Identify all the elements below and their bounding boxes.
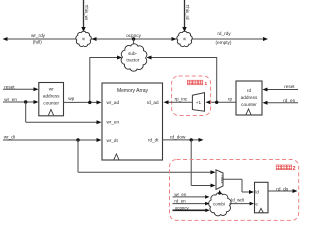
svg-text:counter: counter [43, 101, 59, 106]
svg-text:wr_en: wr_en [174, 192, 187, 197]
wire rp_inc [164, 96, 193, 104]
wire wr_rdy output [3, 37, 78, 41]
wire ld_wdt [230, 198, 255, 206]
wire mux output to register [223, 179, 254, 194]
svg-text:mux: mux [220, 176, 225, 185]
wr address counter U1 [39, 83, 64, 116]
svg-text:reset: reset [284, 84, 295, 89]
svg-text:rd: rd [247, 88, 252, 93]
label wr_rdy (full) [31, 33, 46, 45]
svg-text:(full): (full) [33, 40, 43, 45]
wire ocpncy into combi [173, 205, 210, 212]
svg-text:(empty): (empty) [216, 40, 232, 45]
wire reset (write side) [3, 84, 39, 91]
rd address counter U2 [236, 81, 262, 115]
svg-text:rd_ad: rd_ad [147, 100, 159, 105]
svg-text:ocpncy: ocpncy [126, 33, 142, 38]
label 変更点2 [276, 165, 295, 172]
svg-text:1: 1 [205, 81, 208, 87]
wire combi to mux select [218, 190, 222, 195]
svg-text:wr_en: wr_en [4, 97, 17, 102]
svg-text:wr_en: wr_en [107, 120, 120, 125]
svg-text:wr_dt: wr_dt [107, 138, 119, 143]
svg-text:wr_rdy: wr_rdy [31, 33, 46, 38]
wire wr_en into combi [173, 192, 210, 199]
wire rp [206, 96, 237, 104]
wire rd_dow [163, 135, 204, 142]
svg-text:wp: wp [68, 96, 74, 101]
svg-text:rd_dt: rd_dt [148, 138, 159, 143]
combi cloud [209, 193, 231, 216]
wire This_wr into full-compare [81, 0, 85, 32]
svg-text:+1: +1 [196, 100, 202, 105]
svg-text:ld: ld [255, 189, 259, 194]
svg-text:reset: reset [4, 84, 15, 89]
wire wr_en [3, 97, 39, 104]
svg-text:2: 2 [293, 166, 296, 172]
mux M1 [216, 170, 225, 190]
svg-text:ld_wdt: ld_wdt [231, 198, 244, 203]
wire wr_di bypass branch [78, 140, 216, 174]
wire rd_en into combi [173, 199, 210, 206]
label rd_rdy (empty) [216, 31, 232, 45]
label 変更点1 [187, 80, 207, 87]
junction wp riser [88, 101, 91, 104]
red dashed box change-1 [172, 76, 211, 116]
output register R1 [255, 182, 269, 213]
svg-text:counter: counter [241, 102, 257, 107]
svg-text:address: address [43, 94, 60, 99]
svg-text:This_rd: This_rd [185, 4, 190, 20]
wire ocpncy rail [91, 37, 177, 41]
junction rp riser [215, 101, 218, 104]
red dashed box change-2 [170, 160, 299, 221]
comparator bubble (full) [76, 31, 91, 46]
svg-text:wr_di: wr_di [4, 134, 15, 139]
wire wp to subtractor [90, 56, 122, 103]
svg-text:sub-: sub- [128, 51, 137, 56]
svg-text:Memory Array: Memory Array [117, 88, 149, 94]
svg-text:rp_inc: rp_inc [175, 96, 188, 101]
svg-text:wr: wr [49, 87, 54, 92]
svg-text:address: address [241, 95, 258, 100]
wire rd_rdy output [192, 37, 269, 41]
wire rd_en [263, 98, 299, 105]
increment block +1 [192, 93, 204, 112]
wire rd_dow branch to mux [191, 140, 215, 188]
svg-text:combi: combi [213, 202, 225, 207]
wire wp [64, 96, 102, 104]
svg-text:rd_en: rd_en [174, 199, 186, 204]
junction ocpncy [132, 37, 135, 40]
comparator bubble (empty) [177, 31, 192, 46]
wire wr_di [3, 134, 102, 142]
svg-text:rd_rdy: rd_rdy [217, 31, 231, 36]
wire rp to subtractor [147, 56, 217, 103]
memory array RAM [102, 83, 163, 160]
wire wr_en branch to memory [26, 102, 102, 124]
wire ocpncy from subtractor [133, 39, 135, 46]
svg-text:wr_ad: wr_ad [107, 100, 120, 105]
wire rd_do output [268, 186, 298, 193]
subtractor cloud [121, 44, 147, 71]
svg-text:This_wr: This_wr [84, 5, 89, 21]
svg-text:tractor: tractor [126, 57, 139, 62]
wire This_rd into empty-compare [182, 0, 186, 32]
svg-text:rp: rp [228, 96, 233, 101]
wire reset (read side) [263, 84, 299, 91]
svg-text:rd_dow: rd_dow [170, 135, 186, 140]
